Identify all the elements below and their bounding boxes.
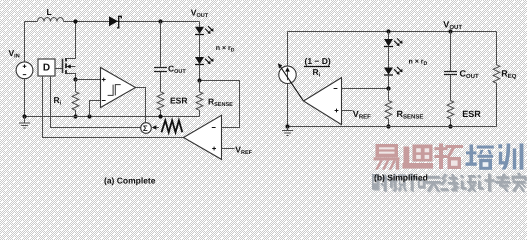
svg-text:(a) Complete: (a) Complete [104,176,156,186]
wire LED interconnect [199,35,201,58]
transistor Q1 gate bar [62,59,64,73]
svg-text:(b) Simplified: (b) Simplified [374,172,428,182]
svg-text:n × rD: n × rD [216,45,235,53]
resistor Ri [72,92,79,117]
gray char she [372,174,379,190]
svg-text:ESR: ESR [170,95,187,105]
node Ri bottom [73,114,77,118]
node ESR bottom b [448,124,452,128]
wire node to Rsense a [199,81,201,92]
svg-text:(1 − D): (1 − D) [305,56,331,66]
wire LED branch b [388,32,390,40]
node Cout top [158,19,162,23]
wire U2 plus stub [222,148,235,150]
node source [73,77,77,81]
gray char xian [441,174,447,179]
source VIN [16,62,33,79]
ramp waveform [162,120,183,132]
wire node to Rsense b [388,89,390,101]
svg-text:COUT: COUT [168,64,186,76]
svg-text:VREF: VREF [353,109,371,121]
gray char tian [426,176,439,178]
LED D2 arrows [205,26,213,34]
resistor Rsense a [196,92,203,117]
op-amp U2 error comparator [184,115,222,159]
wire ground to comparator minus [90,101,101,117]
svg-text:L: L [47,7,52,17]
watermark logo red char yi [374,144,400,170]
wire U3 plus stub [342,110,353,112]
ground symbol a [19,117,30,129]
gray char he [407,176,416,178]
wire top rail b [288,31,497,33]
wire sense to U2 minus [200,81,240,128]
block D [38,59,55,76]
wire LED interconnect b [388,47,390,68]
summer node [141,123,152,134]
gray char zhuan [496,176,509,178]
gray char ji [478,175,481,178]
svg-text:VREF: VREF [235,144,252,156]
svg-text:COUT: COUT [460,69,480,81]
svg-text:REQ: REQ [501,69,517,81]
svg-text:VOUT: VOUT [443,19,462,31]
arrow into summer [152,125,159,129]
current source I1 [278,63,304,101]
wire D feedback outer [43,77,184,138]
svg-text:Ri: Ri [313,67,321,79]
transistor Q1 channel [65,58,67,74]
wire LED to node b [388,75,390,89]
op-amp U3 [304,78,342,125]
wire top rail left segment [25,21,38,23]
LED D4 [384,39,393,47]
capacitor Cout a [154,68,167,72]
transistor Q1 arrow [66,65,75,69]
wire U1 output to summer [136,88,146,123]
svg-text:RSENSE: RSENSE [397,109,424,121]
svg-text:VOUT: VOUT [191,7,209,18]
LED D3 [195,57,204,65]
LED D5 [384,68,393,76]
node comparator minus ground tap [87,114,91,118]
wire Cout to ESR [160,72,162,92]
label fraction 1-D over Ri [304,56,331,78]
gray char pin [390,176,392,188]
watermark gray tagline [372,173,527,193]
svg-text:VIN: VIN [9,48,20,60]
wire left vertical b [287,32,289,127]
resistor Req [493,65,500,127]
node ground left [22,114,26,118]
svg-text:RSENSE: RSENSE [208,97,233,109]
wire gate lead [55,68,62,70]
transistor Q1 source lead [67,74,76,79]
node Vout b [448,29,452,33]
wire LED branch top [199,22,201,27]
wire input left vertical [24,22,26,117]
transistor Q1 drain lead [67,22,76,59]
LED D3 arrows [205,56,213,64]
svg-text:Σ: Σ [143,124,148,133]
node drain top rail [73,19,77,23]
wire D feedback inner to summer [51,77,141,128]
resistor ESR b [447,101,454,127]
wire Cout to ESR b [450,75,452,101]
wire source to comparator plus [76,79,101,81]
wire top rail right segment [64,21,200,23]
wire source down to Ri [75,80,77,92]
inductor L [38,18,64,22]
node LED top b [386,29,390,33]
wire Req branch [496,32,498,65]
resistor ESR a [157,92,164,117]
diode D1 schottky [109,16,121,28]
LED D2 [195,27,204,35]
resistor Rsense b [385,101,392,127]
wire Cout branch [160,22,162,67]
wire ground rail [25,116,200,118]
ground symbol b [282,127,293,136]
gray char jia [517,173,520,175]
node ground b [285,124,289,128]
watermark logo red char tuo [435,144,464,170]
node LED Rsense a [197,78,201,82]
wire Cout branch b [450,32,452,71]
watermark logo blue char pei [466,145,494,170]
gray char she2 [460,175,463,178]
node ESR bottom [158,114,162,118]
watermark logo red char di [403,145,434,169]
wire LED to node [199,65,201,81]
svg-text:ESR: ESR [462,109,481,119]
watermark logo blue char xun [498,144,523,170]
node LED Rsense b [386,86,390,90]
svg-text:n × rD: n × rD [409,59,428,67]
node Rsense bottom b [386,124,390,128]
LED D4 arrows [394,38,402,46]
svg-text:D: D [43,62,50,73]
wire ground rail b [288,126,497,128]
capacitor Cout b [444,72,457,75]
svg-text:Ri: Ri [54,95,62,107]
op-amp U1 hysteretic comparator [101,68,136,108]
wire U3 minus input [342,88,389,90]
LED D5 arrows [394,67,402,75]
